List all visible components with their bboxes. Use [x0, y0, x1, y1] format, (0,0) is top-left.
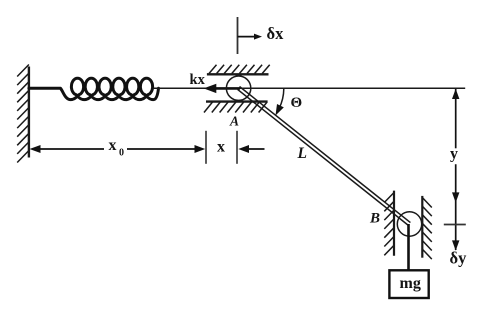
B left wall hatching: [384, 193, 394, 256]
x0 dimension line left segment: [38, 148, 104, 150]
svg-text:Θ: Θ: [291, 95, 303, 111]
delta-x tick line: [237, 17, 239, 54]
ceiling line above A: [207, 73, 269, 75]
theta arc: [279, 89, 284, 109]
theta arc arrowhead: [276, 104, 284, 116]
y mid down arrowhead: [452, 192, 459, 202]
roller circle B: [397, 212, 421, 236]
svg-text:0: 0: [119, 148, 124, 159]
svg-text:mg: mg: [400, 275, 421, 292]
tick at B level: [444, 224, 466, 226]
x left-pointing arrow: [246, 148, 265, 150]
x0 left arrowhead at wall: [30, 145, 41, 153]
roller circle A: [226, 76, 250, 100]
svg-text:x: x: [217, 139, 225, 156]
delta-y bottom arrowhead: [452, 240, 459, 250]
svg-text:L: L: [297, 145, 307, 162]
svg-text:A: A: [229, 114, 239, 129]
main horizontal line: [153, 87, 465, 89]
tick below A: [236, 131, 238, 164]
left wall hatching: [17, 65, 29, 163]
spring: [29, 78, 159, 99]
lower guide line below A: [206, 100, 268, 102]
y top arrowhead: [452, 89, 459, 99]
svg-text:δy: δy: [450, 249, 468, 268]
B right wall: [421, 196, 423, 258]
tick at x0 end: [205, 131, 207, 164]
x0 right arrowhead: [195, 145, 206, 153]
B left wall: [393, 191, 395, 256]
force arrow kx shaft: [212, 87, 240, 90]
y dimension line: [455, 89, 457, 148]
force arrow kx head: [204, 84, 217, 93]
mass box: [389, 270, 428, 298]
B right wall hatching: [422, 198, 432, 260]
cord from B to mass: [407, 224, 410, 271]
rod L double line: [238, 87, 411, 226]
svg-text:kx: kx: [190, 72, 206, 88]
svg-text:B: B: [369, 211, 380, 227]
lower guide hatching: [204, 102, 267, 113]
left wall line: [28, 67, 30, 158]
svg-text:x: x: [109, 137, 117, 154]
ceiling hatching: [209, 65, 270, 74]
svg-text:y: y: [450, 146, 458, 163]
delta-x arrow: [238, 36, 257, 38]
x0 dimension line right segment: [127, 148, 196, 150]
svg-text:δx: δx: [267, 24, 285, 43]
